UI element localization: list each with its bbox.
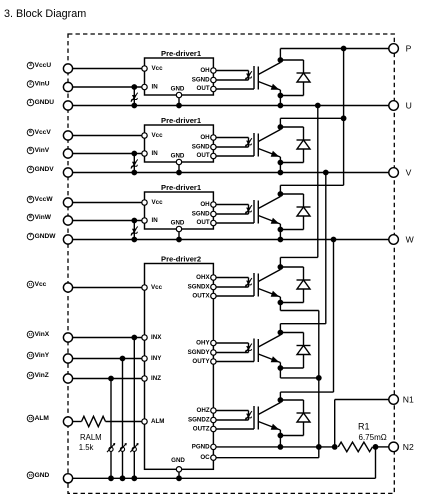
svg-text:Vcc: Vcc: [152, 65, 164, 72]
svg-text:OUTY: OUTY: [192, 358, 210, 365]
svg-text:6.75mΩ: 6.75mΩ: [359, 433, 387, 442]
svg-text:9: 9: [29, 196, 32, 202]
svg-text:RALM: RALM: [80, 433, 102, 442]
svg-text:GND: GND: [171, 85, 185, 92]
svg-text:OUT: OUT: [197, 85, 210, 92]
svg-text:GND: GND: [35, 472, 50, 479]
svg-text:N1: N1: [403, 395, 414, 405]
svg-text:VinW: VinW: [35, 214, 52, 221]
svg-text:R1: R1: [358, 421, 370, 431]
svg-text:N2: N2: [403, 442, 414, 452]
svg-text:OH: OH: [200, 67, 210, 74]
svg-text:VccV: VccV: [35, 129, 52, 136]
svg-text:7: 7: [29, 233, 32, 239]
svg-text:GND: GND: [171, 152, 185, 159]
svg-text:IN: IN: [152, 150, 159, 157]
svg-text:SGNDY: SGNDY: [188, 349, 211, 356]
svg-text:SGNDZ: SGNDZ: [188, 417, 210, 424]
svg-text:GNDV: GNDV: [35, 166, 55, 173]
svg-text:VinX: VinX: [35, 331, 50, 338]
svg-text:Vcc: Vcc: [35, 281, 47, 288]
svg-text:IN: IN: [152, 217, 159, 224]
svg-text:INX: INX: [151, 334, 162, 341]
svg-text:ALM: ALM: [35, 415, 50, 422]
svg-text:Pre-driver1: Pre-driver1: [161, 49, 202, 58]
svg-text:VinV: VinV: [35, 147, 50, 154]
svg-text:SGND: SGND: [192, 76, 210, 83]
svg-text:OUT: OUT: [197, 152, 210, 159]
svg-text:VinZ: VinZ: [35, 372, 49, 379]
svg-text:15: 15: [28, 417, 32, 421]
svg-text:INZ: INZ: [151, 375, 161, 382]
svg-text:IN: IN: [152, 84, 159, 91]
svg-text:OHX: OHX: [196, 274, 210, 281]
svg-text:GNDU: GNDU: [35, 99, 55, 106]
svg-text:SGNDX: SGNDX: [188, 284, 211, 291]
svg-text:5: 5: [29, 147, 32, 153]
svg-text:11: 11: [29, 283, 33, 287]
svg-text:Vcc: Vcc: [151, 284, 163, 291]
svg-text:1: 1: [29, 99, 32, 105]
svg-text:4: 4: [29, 166, 32, 172]
svg-text:3: 3: [29, 62, 32, 68]
svg-text:OH: OH: [200, 134, 210, 141]
svg-text:VinU: VinU: [35, 81, 50, 88]
svg-text:1.5k: 1.5k: [79, 443, 94, 452]
svg-text:2: 2: [29, 81, 32, 87]
svg-text:P: P: [406, 44, 412, 54]
svg-text:Pre-driver1: Pre-driver1: [161, 183, 202, 192]
svg-text:13: 13: [28, 354, 32, 358]
svg-text:Pre-driver2: Pre-driver2: [161, 254, 201, 263]
svg-text:SGND: SGND: [192, 143, 210, 150]
svg-text:12: 12: [28, 333, 32, 337]
svg-text:OHY: OHY: [196, 340, 210, 347]
svg-text:10: 10: [28, 473, 32, 477]
svg-text:OUTZ: OUTZ: [193, 426, 210, 433]
svg-text:GND: GND: [171, 219, 185, 226]
svg-text:U: U: [406, 101, 412, 111]
svg-text:Vcc: Vcc: [152, 132, 164, 139]
svg-text:SGND: SGND: [192, 210, 210, 217]
svg-text:OUTX: OUTX: [192, 293, 210, 300]
svg-text:GNDW: GNDW: [35, 233, 57, 240]
svg-text:GND: GND: [171, 457, 185, 464]
svg-text:8: 8: [29, 214, 32, 220]
svg-text:OUT: OUT: [197, 219, 210, 226]
svg-text:W: W: [406, 235, 415, 245]
svg-text:ALM: ALM: [151, 418, 164, 425]
svg-text:VccU: VccU: [35, 62, 52, 69]
svg-text:Vcc: Vcc: [152, 199, 164, 206]
svg-text:INY: INY: [151, 355, 162, 362]
svg-text:3. Block Diagram: 3. Block Diagram: [4, 8, 86, 20]
svg-text:VinY: VinY: [35, 352, 50, 359]
svg-text:OH: OH: [200, 201, 210, 208]
svg-text:VccW: VccW: [35, 196, 54, 203]
svg-text:PGND: PGND: [192, 443, 210, 450]
svg-text:V: V: [406, 168, 412, 178]
svg-text:6: 6: [29, 129, 32, 135]
svg-text:OC: OC: [200, 454, 210, 461]
svg-text:OHZ: OHZ: [197, 407, 210, 414]
svg-text:Pre-driver1: Pre-driver1: [161, 116, 202, 125]
